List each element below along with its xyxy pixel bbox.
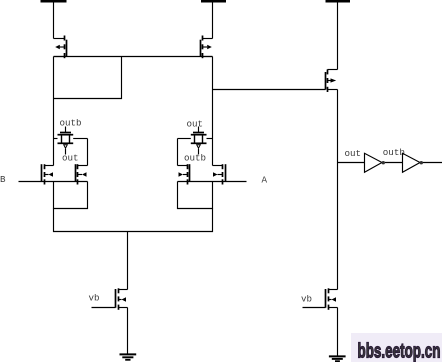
wire source U left pair [54,182,88,209]
wire U1 to U2 [385,162,403,164]
svg-text:B: B [0,174,6,185]
svg-text:outb: outb [60,118,82,129]
transistor M8 (tail current source) [92,288,128,353]
wire output [423,162,442,164]
transistor M5 (left coupling device, horizontal) [54,127,88,155]
transistor M2 (top-right PMOS) [201,36,213,59]
wire loop rectangle [54,57,122,99]
ground GND1 [120,354,137,359]
wire gate bus between M1 and M2 [54,56,213,58]
wire inverter input [338,162,365,164]
watermark background [351,333,442,362]
wire node outb right vertical [212,57,214,166]
svg-text:outb: outb [383,147,405,158]
ground GND2 [329,356,346,361]
transistor M7 (output PMOS) [326,69,338,92]
transistor M6 (right coupling device, horizontal) [178,127,213,155]
transistor M3b (diff pair B, right) [76,164,88,184]
wire tail tap [127,232,129,290]
supply VDD3 [326,1,351,70]
wire M7 drain vertical [337,90,339,290]
svg-text:out: out [62,153,79,164]
wire input B [19,181,42,183]
svg-text:out: out [345,148,362,159]
svg-text:outb: outb [184,153,206,164]
wire node out left vertical [53,57,55,166]
svg-text:bbs.eetop.cn: bbs.eetop.cn [358,340,441,362]
transistor M4a (diff pair A, left) [178,164,190,184]
wire gate of M7 from node outb [213,89,326,91]
wire sources line left pair [42,181,88,183]
buffer U2 [403,153,421,172]
wire input A [226,181,247,183]
junction dot U1 output [382,161,385,164]
watermark bbs.eetop.cn [358,340,441,362]
svg-text:vb: vb [89,293,100,304]
supply VDD1 [41,1,67,39]
junction dot U2 output [420,161,423,164]
transistor M4b (diff pair A, right) [213,164,226,184]
transistor M3a (diff pair B, left) [42,164,54,184]
buffer U1 [365,153,383,172]
transistor M1 (top-left PMOS) [54,36,67,59]
wire M6 to M4a drain vertical [177,139,179,166]
svg-text:out: out [187,119,204,130]
wire source U right pair [178,182,213,209]
wire tail bus [54,209,213,232]
wire sources line right pair [178,181,226,183]
supply VDD2 [201,1,226,39]
svg-text:A: A [262,174,268,185]
wire M5 to M3b drain vertical [87,139,89,166]
transistor M9 (output branch current source) [303,288,338,355]
svg-text:vb: vb [301,294,312,305]
